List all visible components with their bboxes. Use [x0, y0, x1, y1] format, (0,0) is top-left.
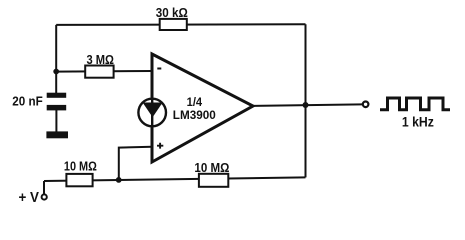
svg-text:1 kHz: 1 kHz: [402, 114, 434, 129]
svg-text:10 MΩ: 10 MΩ: [194, 160, 229, 175]
svg-text:30 kΩ: 30 kΩ: [156, 5, 188, 20]
svg-text:10 MΩ: 10 MΩ: [64, 159, 97, 174]
svg-text:LM3900: LM3900: [173, 108, 216, 122]
svg-text:20 nF: 20 nF: [12, 95, 43, 109]
svg-text:3 MΩ: 3 MΩ: [86, 52, 114, 67]
svg-text:1/4: 1/4: [187, 95, 203, 109]
svg-text:+ V: + V: [19, 189, 40, 206]
